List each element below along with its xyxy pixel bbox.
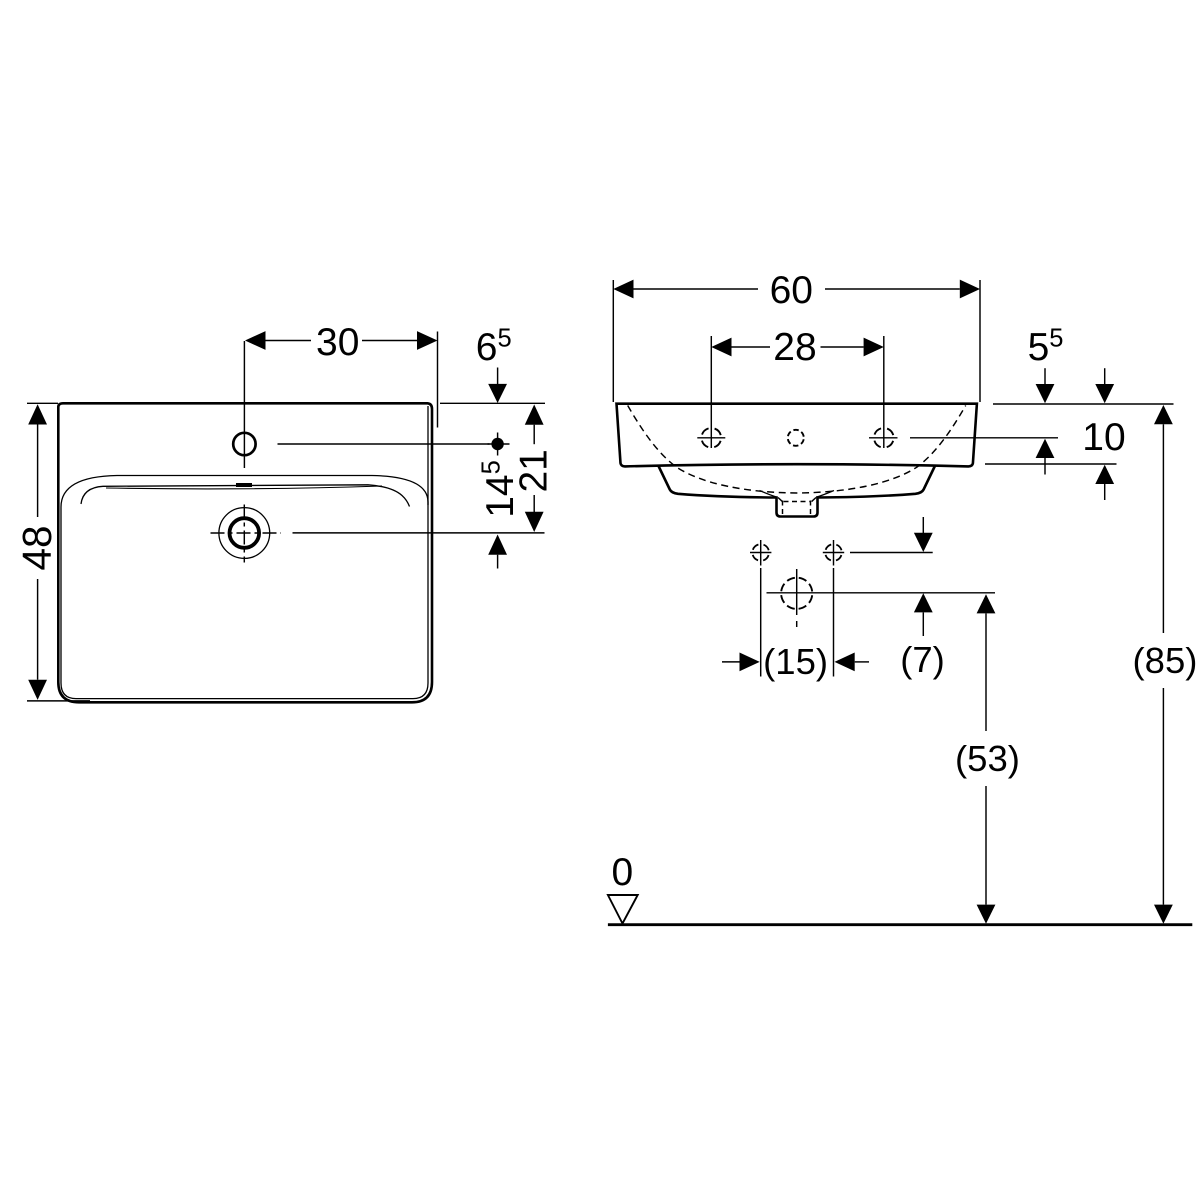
svg-text:10: 10 <box>1082 416 1125 459</box>
svg-text:0: 0 <box>611 851 633 894</box>
svg-text:30: 30 <box>316 321 359 364</box>
svg-text:(15): (15) <box>763 641 828 682</box>
svg-text:60: 60 <box>770 269 813 312</box>
svg-text:(85): (85) <box>1133 640 1198 681</box>
svg-text:48: 48 <box>14 525 60 570</box>
svg-text:(7): (7) <box>900 639 945 680</box>
svg-text:(53): (53) <box>955 738 1020 779</box>
svg-text:28: 28 <box>773 326 816 369</box>
